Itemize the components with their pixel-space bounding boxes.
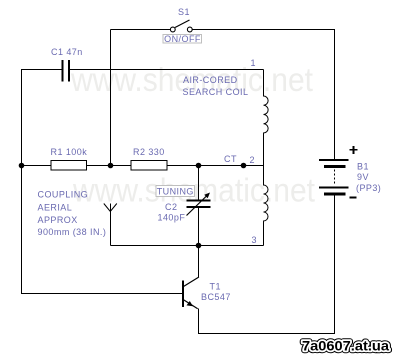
battery B1 — [319, 160, 349, 194]
svg-text:B1: B1 — [357, 162, 369, 172]
battery minus sign — [350, 197, 357, 199]
junction dot: C2 bottom / tuning row — [196, 243, 202, 249]
TUNING function label box — [156, 186, 195, 197]
wire: emitter down and bottom rail to battery negative — [199, 196, 335, 334]
coil name label — [183, 75, 249, 97]
svg-text:ON/OFF: ON/OFF — [164, 34, 201, 44]
svg-text:S1: S1 — [178, 7, 190, 17]
switch S1 — [170, 20, 192, 32]
ON/OFF function label box — [163, 34, 202, 44]
wire: resistor row from left rail to coil centre tap — [22, 165, 264, 167]
svg-text:CT: CT — [224, 154, 237, 164]
wire: tuning bottom row from aerial to coil pin 3 — [111, 245, 264, 247]
svg-text:7a0607.at.ua: 7a0607.at.ua — [302, 339, 390, 354]
junction dot: centre tap — [241, 163, 247, 169]
junction dot: left rail / R1 — [19, 163, 25, 169]
wire: C2 top lead from junction — [198, 166, 200, 200]
svg-text:T1: T1 — [210, 282, 221, 292]
resistor R2 — [131, 161, 167, 171]
junction dot: mid vertical / resistor row — [108, 163, 114, 169]
resistor R1 — [51, 161, 87, 171]
air-cored search coil L1 — [264, 70, 269, 246]
aerial note label — [38, 190, 107, 238]
wire: mid vertical from top rail down to R1/R2 junction — [110, 30, 112, 166]
svg-text:APPROX: APPROX — [38, 215, 78, 225]
svg-text:9V: 9V — [357, 172, 369, 182]
junction dot: C2 top / resistor row — [196, 163, 202, 169]
svg-text:AIR-CORED: AIR-CORED — [183, 75, 238, 85]
wire: C1 left lead, left rail and base feed to T1 — [22, 70, 183, 294]
variable capacitor C2 — [187, 193, 211, 216]
coupling aerial antenna symbol — [104, 204, 117, 246]
svg-text:C2: C2 — [165, 202, 177, 212]
site tag 7a0607.at.ua — [302, 339, 390, 354]
svg-text:SEARCH COIL: SEARCH COIL — [183, 87, 249, 97]
svg-text:3: 3 — [252, 235, 257, 245]
svg-text:900mm (38 IN.): 900mm (38 IN.) — [38, 227, 107, 237]
svg-text:C1 47n: C1 47n — [51, 47, 83, 57]
svg-text:TUNING: TUNING — [157, 187, 194, 197]
svg-text:R2 330: R2 330 — [133, 147, 165, 157]
wire: top rail right segment from S1 to battery positive — [192, 30, 335, 160]
svg-text:AERIAL: AERIAL — [38, 203, 73, 213]
wire: top rail left segment from mid vertical to S1 — [111, 29, 171, 31]
svg-text:140pF: 140pF — [158, 213, 186, 223]
svg-text:R1 100k: R1 100k — [51, 147, 88, 157]
svg-text:(PP3): (PP3) — [356, 183, 381, 193]
capacitor C1 — [63, 60, 70, 82]
wire: C1 right lead across to search coil pin 1 — [70, 69, 264, 71]
faint background watermarks (decorative) drawn first — [70, 61, 315, 209]
svg-text:COUPLING: COUPLING — [38, 190, 89, 200]
wire: T1 collector lead — [198, 246, 200, 278]
svg-text:BC547: BC547 — [201, 292, 231, 302]
svg-text:1: 1 — [251, 58, 256, 68]
transistor T1 — [183, 277, 199, 309]
svg-text:2: 2 — [250, 155, 255, 165]
battery plus sign — [350, 146, 358, 154]
wire: C2 bottom lead to tuning row — [198, 208, 200, 246]
